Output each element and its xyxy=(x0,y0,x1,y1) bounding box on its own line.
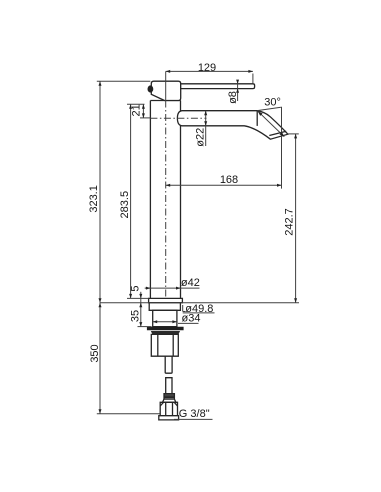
svg-text:283.5: 283.5 xyxy=(119,191,131,219)
dim 5 and 35 leader line xyxy=(140,292,142,327)
G3/8 hex nut xyxy=(160,402,177,415)
base flange xyxy=(149,298,183,302)
hose rod lower xyxy=(166,378,172,394)
svg-text:242.7: 242.7 xyxy=(283,208,295,236)
valve body xyxy=(151,334,178,356)
threaded rod upper xyxy=(165,356,172,373)
spout centerline xyxy=(140,117,207,119)
dim 5 xyxy=(129,286,142,308)
dim 283.5 extension line top xyxy=(127,103,145,105)
svg-text:350: 350 xyxy=(89,344,101,362)
lever handle xyxy=(181,84,255,89)
spout xyxy=(177,111,288,140)
lock nut flange xyxy=(147,327,184,330)
svg-text:ø34: ø34 xyxy=(182,313,201,325)
dim 283.5 xyxy=(119,104,132,298)
svg-text:323.1: 323.1 xyxy=(88,185,100,213)
G3/8 nut cup xyxy=(159,416,179,420)
faucet body column xyxy=(150,101,180,299)
svg-text:30°: 30° xyxy=(264,97,281,109)
dim 242.7 extension line top xyxy=(288,133,299,135)
dim 35 extension line bottom xyxy=(138,326,152,328)
dim diameter 42 xyxy=(145,277,200,290)
dim diameter 34 xyxy=(153,313,201,325)
dim 323.1 extension line top xyxy=(97,80,151,82)
dim 129 extension line right xyxy=(252,74,254,84)
svg-text:5: 5 xyxy=(129,286,141,292)
dim 168 xyxy=(166,174,282,187)
dim 242.7 xyxy=(283,134,297,303)
svg-text:35: 35 xyxy=(129,310,141,322)
flange top extension line left xyxy=(127,297,149,299)
svg-text:G 3/8": G 3/8" xyxy=(179,408,210,420)
svg-text:21: 21 xyxy=(131,104,143,116)
handle cap dark pin xyxy=(148,85,154,92)
label diameter 22 xyxy=(195,111,208,147)
dim 21 xyxy=(131,104,145,118)
under counter collar diameter 49.8 xyxy=(149,303,180,311)
label diameter 8 leader xyxy=(227,80,239,104)
dim 35 xyxy=(129,310,142,327)
aerator ring xyxy=(269,131,286,135)
label diameter 49.8 leader xyxy=(183,303,215,315)
outlet extension line vertical xyxy=(281,107,283,189)
svg-text:129: 129 xyxy=(198,62,216,74)
svg-text:ø22: ø22 xyxy=(195,128,207,147)
lock nut taper xyxy=(151,331,180,334)
under counter shank diameter 34 xyxy=(153,310,177,326)
main centerline xyxy=(165,71,167,298)
dim 323.1 xyxy=(88,81,102,303)
svg-text:ø42: ø42 xyxy=(181,277,200,289)
spout tip joint seam xyxy=(256,111,258,126)
hose crimp collar xyxy=(164,394,174,400)
hose flare xyxy=(163,399,176,402)
handle cap xyxy=(151,81,180,100)
angle 30 deg dimension xyxy=(257,97,284,137)
svg-text:168: 168 xyxy=(220,174,238,186)
dim 350 extension line bottom xyxy=(97,413,160,415)
svg-text:ø8: ø8 xyxy=(227,91,239,104)
dim 350 xyxy=(89,303,101,414)
counter top line xyxy=(100,302,299,304)
label G 3/8 xyxy=(174,408,213,420)
dim 129 xyxy=(166,62,253,74)
